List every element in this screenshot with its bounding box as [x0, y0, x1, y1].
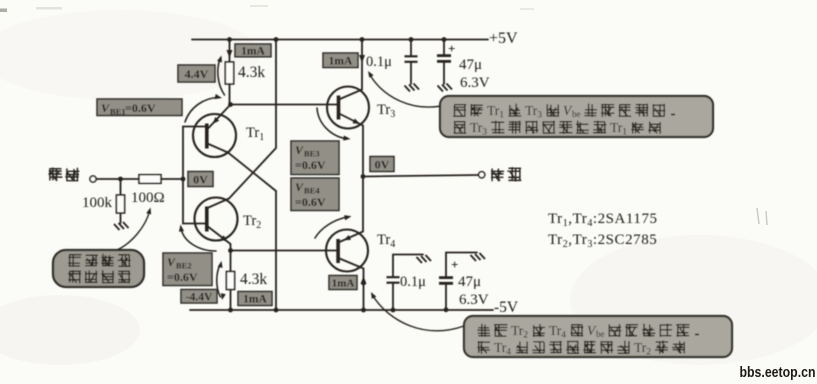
- svg-text:1mA: 1mA: [241, 46, 265, 58]
- wire input to 100ohm: [96, 178, 139, 180]
- Tr1 collector wire diagonal down: [209, 144, 277, 191]
- svg-text:1mA: 1mA: [243, 294, 267, 306]
- svg-text:47μ: 47μ: [458, 274, 481, 290]
- svg-text:6.3V: 6.3V: [460, 75, 490, 91]
- resistor R4 4.3k bottom body: [226, 272, 234, 290]
- svg-text:4.3k: 4.3k: [238, 64, 265, 81]
- ground right of C3: [417, 255, 432, 263]
- node C4 rail: [444, 307, 449, 312]
- wire node B to R4: [230, 251, 232, 272]
- resistor R3 100k body: [116, 195, 124, 213]
- label box 0V input: [188, 172, 213, 187]
- input terminal: [90, 176, 96, 182]
- wire to Tr2 base: [183, 223, 205, 225]
- current arrow on Tr4 collector: [361, 276, 367, 284]
- current arc around Tr1: [185, 94, 222, 122]
- current arc beside R1: [217, 56, 224, 96]
- capacitor C3 0.1u bottom: wire from rail: [392, 284, 394, 311]
- callout bubble: if |VBE| of Tr2,Tr4 equal, emitter currents equal: [464, 316, 732, 358]
- C1 plates: [405, 56, 418, 62]
- wire Tr2 collector vertical to +5V: [209, 40, 277, 208]
- C4 plates (electrolytic): [439, 278, 453, 284]
- transistor Q1 Tr1 PNP circle: [193, 114, 236, 157]
- C1 lower wire: [410, 62, 412, 84]
- Tr2 emitter wire with NPN arrow: [209, 227, 231, 251]
- label box VBE1: [97, 99, 182, 117]
- node base column junction: [181, 177, 186, 182]
- svg-text:=0.6V: =0.6V: [295, 158, 326, 172]
- wire output line: [363, 175, 479, 177]
- svg-text:V: V: [295, 143, 304, 157]
- Tr4 base bar: [336, 239, 340, 263]
- node input junction: [118, 177, 123, 182]
- node top rail C1: [409, 37, 414, 42]
- C3 upper wire to ground: [393, 255, 423, 278]
- wire R4 to -5V rail: [230, 290, 232, 311]
- svg-text:V: V: [295, 180, 304, 194]
- C3 plates: [387, 277, 400, 283]
- Tr3 base bar: [337, 96, 341, 120]
- wire 100k to ground: [120, 213, 122, 223]
- svg-text:-4.4V: -4.4V: [186, 292, 213, 304]
- wire input base column vertical: [182, 127, 184, 224]
- capacitor C1 0.1u top: wire from rail: [410, 40, 412, 57]
- resistor R1 4.3k top body: [225, 62, 233, 84]
- svg-text:100k: 100k: [82, 195, 113, 211]
- svg-text:4.3k: 4.3k: [240, 271, 267, 288]
- label box 1mA bottom R4: [238, 292, 272, 306]
- label box 0V output: [370, 157, 394, 172]
- wire -5V bottom rail: [190, 309, 493, 311]
- label box VBE4: [291, 178, 339, 211]
- node output junction: [361, 174, 366, 179]
- transistor Q3 Tr3 NPN circle: [327, 87, 369, 129]
- wire 100ohm to base column: [161, 178, 183, 180]
- svg-text:BE2: BE2: [176, 261, 192, 271]
- current arrow on Tr3 collector: [359, 55, 365, 63]
- svg-text:6.3V: 6.3V: [459, 292, 489, 308]
- wire +5V top rail: [192, 39, 488, 41]
- svg-text:BE1: BE1: [110, 107, 126, 117]
- node top rail Tr2 collector: [274, 37, 279, 42]
- output terminal: [479, 172, 485, 178]
- svg-text:+: +: [448, 41, 455, 56]
- current arrow into R1 top: [227, 50, 233, 58]
- wire R1 bottom to node A: [229, 84, 231, 105]
- node B (Tr2 emitter / R4 / Tr4 base): [228, 248, 233, 253]
- svg-text:4.4V: 4.4V: [185, 67, 209, 81]
- svg-text:=0.6V: =0.6V: [125, 101, 156, 115]
- transistor Q4 Tr4 PNP circle: [326, 230, 368, 272]
- ground below C1: [405, 84, 420, 92]
- svg-text:-5V: -5V: [494, 299, 519, 316]
- svg-text:100Ω: 100Ω: [131, 190, 165, 206]
- svg-text:BE4: BE4: [304, 186, 320, 196]
- Tr1 base bar: [205, 124, 209, 149]
- label box 1mA Tr3: [323, 53, 358, 68]
- current arc beside R4: [217, 261, 226, 300]
- svg-text:be: be: [596, 329, 605, 339]
- node R4 rail: [228, 308, 233, 313]
- label box -4.4V: [181, 290, 217, 304]
- svg-text:be: be: [572, 109, 581, 119]
- svg-text:0V: 0V: [375, 158, 390, 172]
- ground right of C4: [471, 253, 486, 261]
- label box VBE2: [163, 253, 212, 286]
- Tr2 base bar: [205, 207, 209, 232]
- Tr4 emitter wire from output with PNP arrow: [340, 177, 364, 243]
- resistor R2 100ohm body: [139, 175, 161, 184]
- label box 1mA top: [235, 44, 271, 58]
- input label (shu ru): [48, 168, 62, 182]
- current arc around Tr2: [179, 225, 216, 252]
- transistor Q2 Tr2 NPN circle: [195, 198, 238, 241]
- node C3 rail: [391, 308, 396, 313]
- svg-text:V: V: [101, 101, 110, 115]
- svg-text:1mA: 1mA: [332, 278, 355, 290]
- svg-text:=0.6V: =0.6V: [295, 195, 326, 209]
- svg-text:47μ: 47μ: [459, 57, 482, 73]
- svg-text:0.1μ: 0.1μ: [366, 54, 392, 70]
- wire node B to Tr4 base: [231, 250, 338, 252]
- Tr3 collector wire to +5V rail: [340, 40, 362, 100]
- node Tr4 collector rail: [361, 308, 366, 313]
- callout arrow to 100ohm: [117, 208, 151, 251]
- callout bubble: resistor prevents oscillation: [53, 250, 144, 287]
- wire Tr1 collector vertical to -5V rail: [275, 191, 277, 310]
- svg-text:0.1μ: 0.1μ: [400, 274, 426, 290]
- node top rail Tr3: [360, 37, 365, 42]
- wire 100k branch: [120, 179, 122, 195]
- current arc around Tr4: [315, 215, 352, 238]
- ground below C2: [438, 84, 453, 92]
- svg-text:0V: 0V: [193, 173, 208, 187]
- output label (shu chu): [491, 169, 504, 182]
- svg-text:1mA: 1mA: [329, 56, 353, 68]
- C2 lower wire: [443, 62, 445, 84]
- node A (R1 / Tr1 emitter / Tr3 base): [228, 102, 233, 107]
- label box 4.4V: [178, 65, 215, 82]
- Tr4 collector wire to -5V rail: [340, 259, 364, 311]
- callout bubble: if |VBE| of Tr1,Tr3 equal, emitter currents equal: [440, 96, 713, 138]
- capacitor C4 47u bottom: wire from rail: [445, 284, 447, 310]
- C4 upper wire to ground: [446, 253, 477, 278]
- wire top 4.3k branch from rail: [229, 40, 231, 63]
- node on Tr4 collector: [361, 281, 366, 286]
- current arc around Tr3: [317, 108, 351, 141]
- capacitor C2 47u top: wire from rail: [443, 40, 445, 56]
- svg-text:=0.6V: =0.6V: [167, 270, 198, 284]
- wire to Tr1 base: [183, 126, 205, 128]
- svg-text:+: +: [451, 257, 458, 272]
- label box 1mA Tr4: [329, 276, 357, 290]
- C2 plates (electrolytic): [437, 56, 451, 62]
- node top rail C2: [442, 37, 447, 42]
- Tr3 emitter wire with NPN arrow to output node: [340, 114, 363, 177]
- wire node A to Tr3 base: [231, 104, 338, 106]
- svg-text:V: V: [167, 255, 176, 269]
- node top rail R1: [227, 37, 232, 42]
- label box VBE3: [291, 141, 339, 175]
- svg-text:BE3: BE3: [304, 149, 320, 159]
- svg-text:+5V: +5V: [489, 30, 518, 47]
- Tr1 emitter wire to node A with PNP arrow: [209, 105, 231, 129]
- callout arrow top bubble to Tr3 collector: [368, 71, 441, 107]
- svg-text:bbs.eetop.cn: bbs.eetop.cn: [740, 365, 816, 381]
- node Tr1 collector rail: [274, 308, 279, 313]
- ground below 100k: [114, 222, 129, 230]
- callout arrow bottom bubble to Tr4 collector: [371, 292, 464, 331]
